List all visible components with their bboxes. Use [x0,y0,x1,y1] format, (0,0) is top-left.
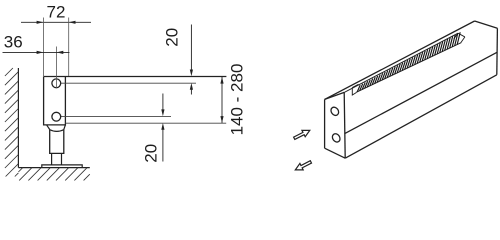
dimension 20 (top rail): upper leader with down arrow [190,25,192,72]
dimension 20 (top rail): lower leader with up arrow [190,83,193,90]
comb base line (bottom of fin row) [356,43,461,93]
floor hatching [18,168,89,181]
end face lower hole [331,132,342,143]
adjustable leg tube [50,130,64,154]
dimension 36: horizontal dimension line [3,51,70,53]
bracket wall plate [44,77,66,125]
top rail bottom edge [61,82,196,84]
dimension 72: horizontal dimension line [21,21,91,23]
extension line right [68,18,70,77]
svg-text:20: 20 [163,28,182,47]
svg-text:140 - 280: 140 - 280 [228,64,247,136]
opening right end edge [458,33,465,37]
casing front-top edge [345,52,498,133]
wall face line [17,68,19,168]
dimension 140-280: vertical dimension line [221,77,223,123]
end face top edge [325,92,345,99]
lower mounting hole [52,112,61,121]
casing back-top edge [325,21,475,99]
mounting direction arrow (up-right) [293,127,312,141]
casing right edge [496,28,499,75]
opening back rim line [344,33,458,92]
lower rail bottom edge [65,122,226,124]
dimension 20 (bottom rail): lower leader with up arrow [161,123,164,130]
wall hatching [5,68,19,177]
leg stem [51,153,53,165]
extension line hole axis [56,47,58,89]
front-left vertical edge [344,92,345,158]
casing far end top edge [475,21,498,28]
right end inner wall edge [461,37,465,43]
removal direction arrow (down-left) [294,159,313,173]
extension line left (plate left edge) [42,18,44,77]
end face left edge [324,99,326,148]
svg-text:72: 72 [47,3,66,22]
end face bottom edge [325,148,346,158]
convector fins (vertical comb strokes) [357,32,460,92]
end face upper hole [329,106,340,117]
fin pack left end wall [352,84,358,87]
casing front-bottom edge [345,75,497,158]
svg-text:36: 36 [4,33,23,52]
top rail (radiator tube) top edge [44,76,227,78]
right end wall inner edge [454,33,458,39]
foot plate [42,165,82,168]
dimension 20 (bottom rail): upper leader with down arrow [162,94,164,111]
lower rail top edge [61,115,171,117]
upper mounting hole [52,79,61,88]
svg-text:20: 20 [142,144,161,163]
clamp cup below plate [47,125,50,130]
floor line [18,167,89,169]
